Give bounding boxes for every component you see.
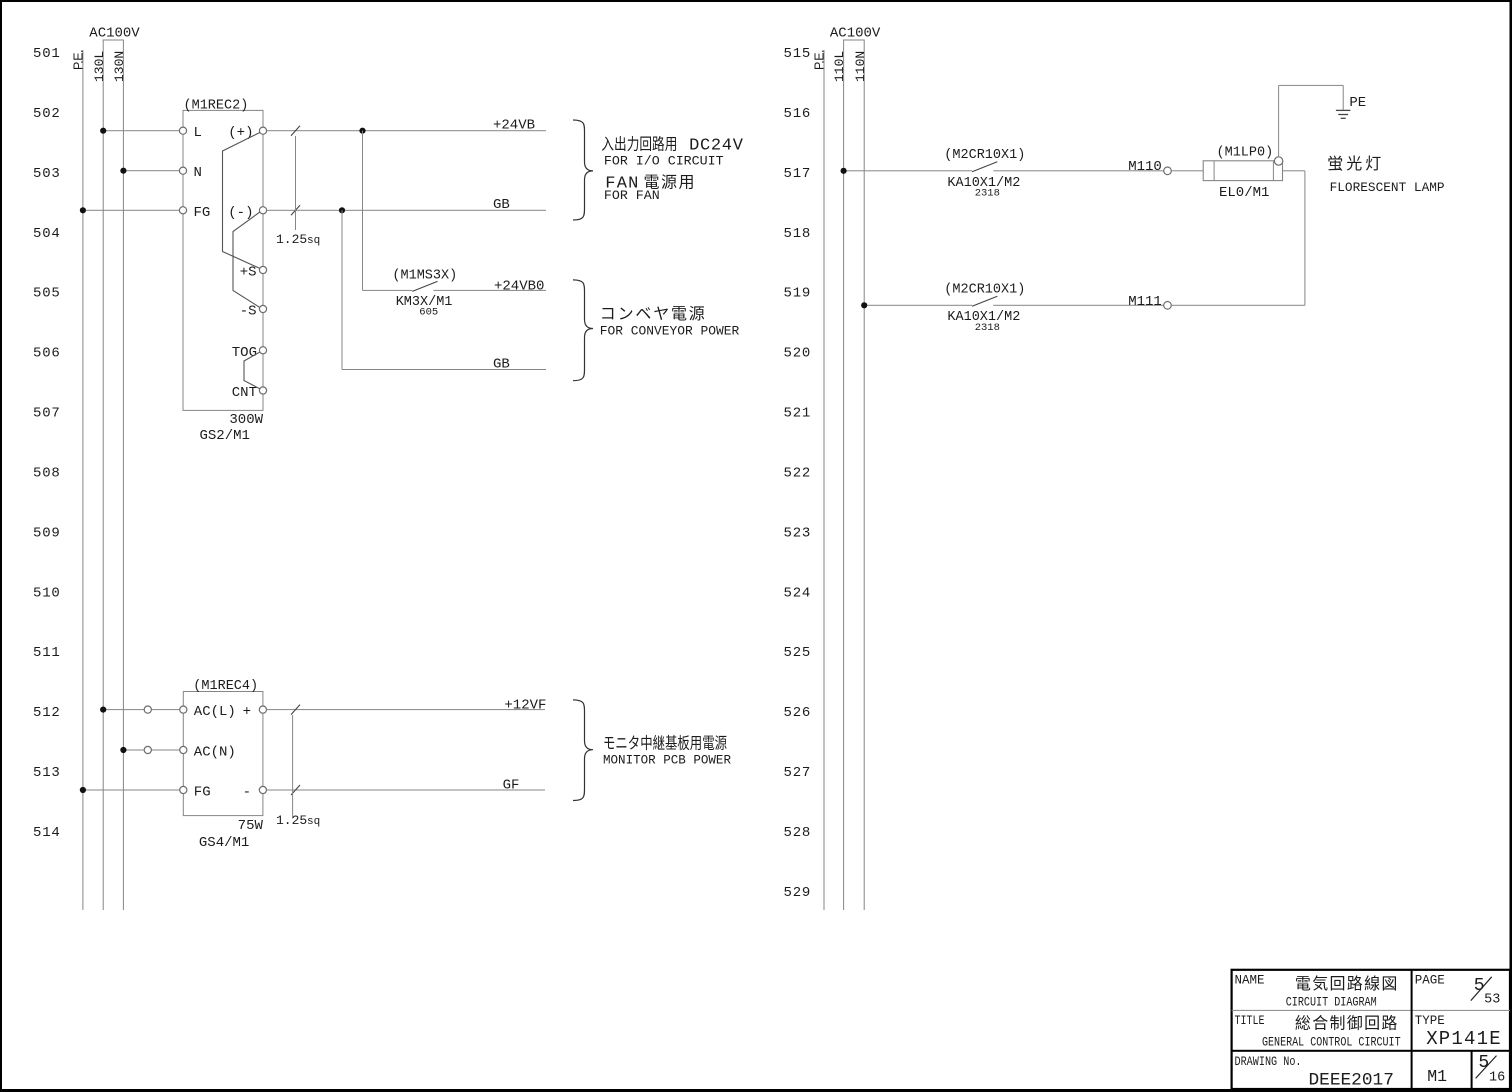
svg-text:130L: 130L	[92, 51, 107, 82]
svg-text:+: +	[243, 704, 251, 720]
svg-text:529: 529	[784, 885, 812, 901]
svg-text:53: 53	[1484, 993, 1500, 1008]
svg-text:(M1LP0): (M1LP0)	[1217, 145, 1274, 160]
svg-text:510: 510	[33, 585, 61, 601]
svg-text:528: 528	[784, 825, 812, 841]
svg-text:コンベヤ電源: コンベヤ電源	[600, 305, 707, 323]
svg-text:-S: -S	[240, 304, 257, 320]
svg-text:2318: 2318	[975, 188, 1000, 200]
svg-text:P.E.: P.E.	[812, 50, 826, 70]
svg-text:PAGE: PAGE	[1415, 974, 1445, 988]
svg-text:MONITOR PCB POWER: MONITOR PCB POWER	[603, 752, 731, 767]
svg-text:AC100V: AC100V	[830, 26, 881, 42]
svg-text:517: 517	[784, 166, 812, 182]
svg-text:+12VF: +12VF	[504, 697, 546, 713]
svg-text:+24VB0: +24VB0	[494, 278, 544, 294]
svg-text:524: 524	[784, 585, 812, 601]
svg-text:511: 511	[33, 645, 61, 661]
svg-text:総合制御回路: 総合制御回路	[1295, 1014, 1399, 1032]
svg-text:(M2CR10X1): (M2CR10X1)	[944, 283, 1025, 298]
svg-text:GF: GF	[503, 778, 520, 794]
svg-text:523: 523	[784, 525, 812, 541]
svg-text:GENERAL CONTROL CIRCUIT: GENERAL CONTROL CIRCUIT	[1262, 1035, 1401, 1050]
svg-text:525: 525	[784, 645, 812, 661]
svg-text:CIRCUIT DIAGRAM: CIRCUIT DIAGRAM	[1286, 994, 1377, 1009]
svg-text:TOG: TOG	[232, 345, 257, 361]
svg-text:507: 507	[33, 406, 61, 422]
svg-text:502: 502	[33, 106, 61, 122]
svg-text:(+): (+)	[228, 125, 253, 141]
svg-text:FLORESCENT LAMP: FLORESCENT LAMP	[1330, 180, 1445, 195]
svg-text:509: 509	[33, 525, 61, 541]
svg-text:520: 520	[784, 346, 812, 362]
svg-text:130N: 130N	[112, 51, 127, 82]
svg-text:605: 605	[419, 307, 438, 319]
svg-text:526: 526	[784, 705, 812, 721]
svg-text:M111: M111	[1128, 294, 1162, 310]
svg-text:527: 527	[784, 765, 812, 781]
svg-text:L: L	[194, 125, 202, 141]
svg-text:(M2CR10X1): (M2CR10X1)	[944, 148, 1025, 163]
svg-text:(-): (-)	[228, 205, 253, 221]
svg-text:110N: 110N	[853, 51, 868, 82]
svg-text:電気回路線図: 電気回路線図	[1295, 975, 1399, 993]
svg-text:FOR I/O CIRCUIT: FOR I/O CIRCUIT	[604, 153, 724, 168]
svg-text:EL0/M1: EL0/M1	[1219, 185, 1269, 201]
svg-text:N: N	[194, 165, 202, 181]
svg-text:(M1REC2): (M1REC2)	[184, 99, 249, 114]
svg-text:513: 513	[33, 765, 61, 781]
svg-text:FOR CONVEYOR POWER: FOR CONVEYOR POWER	[600, 323, 740, 338]
svg-text:2318: 2318	[975, 322, 1000, 334]
svg-text:蛍光灯: 蛍光灯	[1327, 155, 1384, 173]
svg-text:110L: 110L	[832, 51, 847, 82]
svg-text:P.E.: P.E.	[71, 50, 85, 70]
svg-text:518: 518	[784, 226, 812, 242]
svg-text:FOR FAN: FOR FAN	[604, 188, 660, 203]
svg-text:NAME: NAME	[1235, 974, 1265, 988]
svg-text:75W: 75W	[238, 818, 264, 834]
svg-text:16: 16	[1489, 1070, 1505, 1085]
svg-text:504: 504	[33, 226, 61, 242]
svg-text:AC(L): AC(L)	[194, 704, 236, 720]
svg-text:DRAWING No.: DRAWING No.	[1235, 1055, 1302, 1069]
svg-text:TITLE: TITLE	[1235, 1014, 1265, 1028]
svg-text:1.25: 1.25	[276, 232, 307, 247]
svg-text:516: 516	[784, 106, 812, 122]
svg-text:-: -	[243, 785, 251, 801]
svg-text:GS4/M1: GS4/M1	[199, 835, 249, 851]
svg-text:M110: M110	[1128, 159, 1162, 175]
svg-text:GS2/M1: GS2/M1	[200, 428, 250, 444]
svg-text:508: 508	[33, 465, 61, 481]
svg-text:514: 514	[33, 825, 61, 841]
svg-text:モニタ中継基板用電源: モニタ中継基板用電源	[603, 735, 727, 753]
svg-text:AC100V: AC100V	[89, 26, 140, 42]
svg-text:sq: sq	[307, 816, 320, 828]
svg-text:TYPE: TYPE	[1415, 1014, 1445, 1028]
svg-text:AC(N): AC(N)	[194, 745, 236, 761]
svg-text:FG: FG	[194, 205, 211, 221]
svg-text:GB: GB	[493, 197, 510, 213]
svg-text:XP141E: XP141E	[1426, 1028, 1502, 1050]
svg-text:PE: PE	[1349, 95, 1366, 111]
svg-text:1.25: 1.25	[276, 813, 307, 828]
svg-text:505: 505	[33, 286, 61, 302]
svg-text:+S: +S	[240, 265, 257, 281]
svg-text:512: 512	[33, 705, 61, 721]
svg-text:515: 515	[784, 46, 812, 62]
svg-text:+24VB: +24VB	[493, 117, 535, 133]
svg-text:506: 506	[33, 346, 61, 362]
svg-text:300W: 300W	[229, 412, 263, 428]
svg-text:FG: FG	[194, 785, 211, 801]
svg-text:522: 522	[784, 465, 812, 481]
svg-text:(M1REC4): (M1REC4)	[193, 679, 258, 694]
svg-text:519: 519	[784, 286, 812, 302]
svg-text:(M1MS3X): (M1MS3X)	[392, 268, 457, 283]
svg-text:M1: M1	[1427, 1067, 1447, 1086]
svg-text:501: 501	[33, 46, 61, 62]
svg-text:DEEE2017: DEEE2017	[1309, 1071, 1394, 1091]
svg-text:503: 503	[33, 166, 61, 182]
svg-text:521: 521	[784, 406, 812, 422]
svg-text:GB: GB	[493, 356, 510, 372]
svg-text:sq: sq	[307, 235, 320, 247]
svg-text:CNT: CNT	[232, 385, 257, 401]
svg-text:入出力回路用: 入出力回路用	[601, 135, 677, 153]
